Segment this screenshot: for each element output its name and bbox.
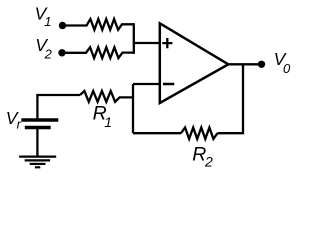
- op-amp U1: [160, 23, 229, 103]
- resistor R2: [181, 128, 218, 139]
- battery Vr (top long plate): [21, 118, 58, 121]
- wire inverting node junction bar: [132, 84, 134, 133]
- resistor (V1 input, unlabeled): [66, 19, 134, 30]
- svg-text:1: 1: [104, 114, 112, 130]
- node V1 input terminal dot: [59, 22, 66, 29]
- wire to op-amp inverting input: [133, 83, 160, 85]
- wire to op-amp non-inverting input: [134, 42, 160, 44]
- node output terminal dot: [258, 61, 265, 68]
- svg-text:2: 2: [44, 47, 53, 62]
- ground symbol: [19, 157, 56, 168]
- label R2: [192, 143, 213, 169]
- op-amp minus input marking: [163, 83, 174, 86]
- svg-text:1: 1: [44, 14, 51, 29]
- wire battery bottom to ground: [36, 128, 38, 157]
- svg-text:0: 0: [283, 61, 291, 76]
- wire feedback bottom run: [133, 132, 181, 134]
- resistor R1: [80, 91, 133, 102]
- wire junction bar joining V1/V2 resistors: [133, 23, 135, 54]
- wire feedback right side up to output: [218, 64, 244, 133]
- label R1: [93, 103, 112, 131]
- svg-text:2: 2: [204, 154, 213, 170]
- wire battery top to R1: [37, 95, 80, 120]
- node V2 input terminal dot: [58, 49, 65, 56]
- label V0: [274, 49, 291, 76]
- op-amp plus input marking: [162, 38, 172, 48]
- battery Vr (bottom short plate): [25, 126, 51, 129]
- label V1: [35, 4, 52, 30]
- svg-text:r: r: [17, 116, 22, 131]
- resistor (V2 input, unlabeled): [66, 47, 134, 58]
- label Vr: [6, 108, 22, 132]
- label V2: [35, 35, 52, 62]
- wire output: [228, 63, 258, 65]
